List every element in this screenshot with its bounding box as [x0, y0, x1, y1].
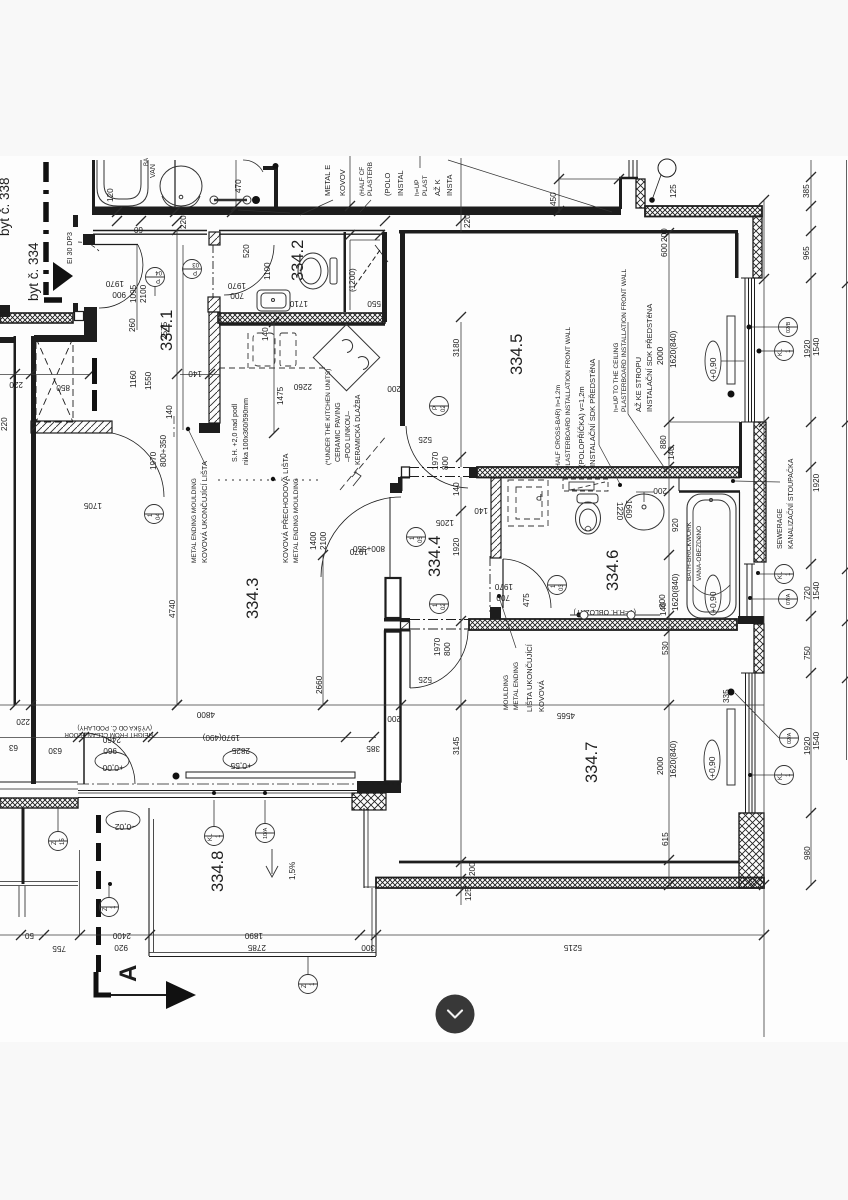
- svg-text:850: 850: [56, 383, 70, 392]
- svg-text:900: 900: [112, 290, 126, 299]
- svg-text:KOVOVÁ UKONČUJÍCÍ LIŠTA: KOVOVÁ UKONČUJÍCÍ LIŠTA: [200, 461, 209, 563]
- svg-text:INSTA: INSTA: [445, 174, 454, 196]
- svg-text:A: A: [115, 965, 142, 982]
- svg-text:1970: 1970: [349, 547, 368, 556]
- svg-text:525: 525: [418, 435, 432, 444]
- svg-text:1970: 1970: [149, 451, 158, 470]
- svg-text:140: 140: [474, 506, 488, 515]
- svg-text:PLAST: PLAST: [422, 175, 429, 196]
- svg-text:PLASTERBOARD INSTALLATION FR: PLASTERBOARD INSTALLATION FRONT WALL: [621, 268, 628, 412]
- svg-text:4740: 4740: [168, 599, 177, 618]
- svg-text:60: 60: [133, 225, 143, 234]
- svg-text:1970: 1970: [433, 637, 442, 656]
- svg-text:3145: 3145: [452, 736, 461, 755]
- svg-text:1970: 1970: [105, 279, 124, 288]
- svg-text:KOVOV: KOVOV: [338, 169, 347, 196]
- svg-text:P: P: [536, 492, 542, 502]
- svg-text:+0,90: +0,90: [707, 756, 717, 778]
- svg-text:3180: 3180: [452, 338, 461, 357]
- svg-text:–0,02: –0,02: [114, 822, 136, 832]
- svg-text:INSTALAČNÍ SDK PŘEDSTěNA: INSTALAČNÍ SDK PŘEDSTěNA: [588, 359, 597, 467]
- svg-text:755: 755: [52, 944, 66, 953]
- svg-text:CERAMIC PAVING: CERAMIC PAVING: [335, 402, 342, 462]
- svg-text:1620(840): 1620(840): [671, 573, 680, 611]
- svg-text:2000: 2000: [656, 756, 665, 775]
- svg-text:450: 450: [549, 192, 558, 206]
- svg-text:1970: 1970: [431, 451, 440, 470]
- svg-text:750: 750: [803, 646, 812, 660]
- svg-text:125: 125: [464, 887, 473, 901]
- svg-text:220: 220: [179, 215, 188, 229]
- svg-text:1920: 1920: [803, 736, 812, 755]
- svg-text:1540: 1540: [812, 337, 821, 356]
- svg-text:615: 615: [661, 832, 670, 846]
- svg-text:4800: 4800: [196, 710, 215, 719]
- svg-text:1920: 1920: [452, 537, 461, 556]
- svg-text:720: 720: [803, 586, 812, 600]
- svg-text:AŽ KE STROPU: AŽ KE STROPU: [634, 357, 643, 412]
- svg-text:(*UNDER THE KITCHEN UNITS): (*UNDER THE KITCHEN UNITS): [325, 369, 332, 465]
- svg-text:200: 200: [660, 228, 669, 242]
- svg-text:1920: 1920: [812, 473, 821, 492]
- svg-text:+0,90: +0,90: [708, 357, 718, 379]
- svg-text:470: 470: [234, 179, 243, 193]
- svg-text:PLASTERB: PLASTERB: [367, 162, 374, 196]
- svg-text:140: 140: [452, 482, 461, 496]
- svg-text:–POD LINKOU–: –POD LINKOU–: [345, 411, 352, 462]
- svg-text:KANALIZAČNÍ STOUPAČKA: KANALIZAČNÍ STOUPAČKA: [786, 458, 795, 549]
- svg-text:1970(490): 1970(490): [202, 733, 240, 742]
- svg-text:byt č. 338: byt č. 338: [0, 177, 12, 236]
- svg-text:260: 260: [128, 318, 137, 332]
- svg-text:550: 550: [367, 299, 381, 308]
- svg-text:2785: 2785: [247, 943, 266, 952]
- svg-text:byt č. 334: byt č. 334: [26, 242, 41, 301]
- svg-text:LIŠTA UKONČUJÍCÍ: LIŠTA UKONČUJÍCÍ: [525, 643, 534, 712]
- svg-text:METAL ENDING MOULDING: METAL ENDING MOULDING: [293, 478, 300, 563]
- svg-text:INSTALAČNÍ SDK PŘEDSTěNA: INSTALAČNÍ SDK PŘEDSTěNA: [645, 304, 654, 412]
- svg-text:02/B: 02/B: [786, 321, 792, 333]
- svg-text:METAL E: METAL E: [323, 165, 332, 196]
- svg-text:200: 200: [387, 384, 401, 393]
- svg-text:1890: 1890: [244, 931, 263, 940]
- svg-text:1710: 1710: [289, 299, 308, 308]
- svg-text:334.5: 334.5: [508, 334, 526, 375]
- svg-text:220: 220: [9, 380, 23, 389]
- svg-text:334.7: 334.7: [583, 742, 601, 783]
- svg-text:1540: 1540: [812, 581, 821, 600]
- svg-text:1970: 1970: [227, 281, 246, 290]
- svg-text:1660: 1660: [624, 500, 633, 519]
- svg-text:1100: 1100: [263, 262, 272, 280]
- svg-text:1705: 1705: [83, 501, 102, 510]
- svg-text:334.3: 334.3: [244, 578, 262, 619]
- svg-text:5215: 5215: [563, 943, 582, 952]
- svg-text:50: 50: [24, 931, 34, 940]
- svg-text:02/A: 02/A: [787, 732, 793, 744]
- svg-text:140: 140: [165, 405, 174, 419]
- svg-text:140: 140: [659, 602, 668, 616]
- svg-text:(POLO: (POLO: [383, 172, 392, 196]
- svg-text:140: 140: [667, 446, 676, 460]
- svg-text:h=UP: h=UP: [414, 180, 421, 196]
- svg-text:334.8: 334.8: [209, 851, 227, 892]
- svg-text:1970: 1970: [494, 582, 513, 591]
- svg-text:2575: 2575: [160, 321, 169, 340]
- svg-text:1475: 1475: [276, 386, 285, 405]
- svg-text:VAN: VAN: [150, 164, 157, 178]
- svg-text:1205: 1205: [435, 518, 454, 527]
- svg-text:KOVOVÁ PŘECHODOVÁ LIŠTA: KOVOVÁ PŘECHODOVÁ LIŠTA: [281, 454, 290, 563]
- svg-text:S.H. +2,0 nad podl: S.H. +2,0 nad podl: [232, 403, 239, 462]
- svg-text:AŽ K: AŽ K: [433, 179, 442, 196]
- svg-text:KOVOVÁ: KOVOVÁ: [537, 680, 546, 712]
- svg-text:(HALF CF: (HALF CF: [359, 167, 366, 196]
- svg-text:530: 530: [661, 641, 670, 655]
- svg-text:475: 475: [522, 593, 531, 607]
- svg-text:EI 30 DP3: EI 30 DP3: [67, 232, 74, 264]
- svg-text:334.4: 334.4: [426, 536, 444, 577]
- svg-text:METAL ENDING MOULDING: METAL ENDING MOULDING: [191, 478, 198, 563]
- svg-text:KERAMICKÁ DLAŽBA: KERAMICKÁ DLAŽBA: [353, 394, 362, 465]
- svg-text:525: 525: [418, 675, 432, 684]
- svg-text:SEWERAGE: SEWERAGE: [777, 508, 784, 549]
- svg-text:(1200): (1200): [348, 268, 357, 292]
- svg-text:2660: 2660: [315, 675, 324, 694]
- svg-text:140: 140: [261, 327, 270, 341]
- svg-text:2400: 2400: [112, 931, 131, 940]
- svg-text:385: 385: [366, 744, 380, 753]
- svg-text:METAL ENDING: METAL ENDING: [513, 662, 520, 710]
- svg-text:334.6: 334.6: [604, 550, 622, 591]
- svg-text:960: 960: [103, 746, 117, 755]
- svg-text:630: 630: [48, 746, 62, 755]
- svg-text:VANA-OBEZDěNO: VANA-OBEZDěNO: [696, 526, 703, 581]
- svg-text:+0,90: +0,90: [708, 591, 718, 613]
- svg-text:200: 200: [468, 862, 477, 876]
- svg-text:nika 100x360/590mm: nika 100x360/590mm: [243, 398, 250, 465]
- svg-text:200: 200: [653, 486, 667, 495]
- svg-text:MOULDING: MOULDING: [503, 675, 510, 710]
- svg-text:4565: 4565: [556, 711, 575, 720]
- svg-text:1620(840): 1620(840): [669, 330, 678, 368]
- svg-text:2100: 2100: [319, 531, 328, 550]
- svg-text:1540: 1540: [812, 731, 821, 750]
- svg-text:920: 920: [671, 518, 680, 532]
- svg-text:(POLOPŘÍČKA) v=1,2m: (POLOPŘÍČKA) v=1,2m: [577, 386, 586, 467]
- svg-text:1095: 1095: [129, 284, 138, 303]
- svg-text:63: 63: [8, 743, 18, 752]
- svg-text:600: 600: [660, 243, 669, 257]
- svg-text:200: 200: [387, 714, 401, 723]
- svg-text:125: 125: [669, 184, 678, 198]
- svg-text:1160: 1160: [129, 370, 138, 388]
- svg-text:800: 800: [441, 456, 450, 470]
- svg-text:980: 980: [803, 846, 812, 860]
- svg-text:2000: 2000: [656, 346, 665, 365]
- svg-text:1550: 1550: [144, 371, 153, 390]
- svg-text:(VÝŠKA OD Č. PODLAHY): (VÝŠKA OD Č. PODLAHY): [77, 724, 152, 731]
- svg-text:1620(840): 1620(840): [669, 740, 678, 778]
- svg-text:h=UP TO THE CEILING: h=UP TO THE CEILING: [613, 343, 620, 412]
- svg-text:(HALF CROSS-BAR) h=1.2m: (HALF CROSS-BAR) h=1.2m: [555, 385, 562, 470]
- svg-text:HEIGHT FROM CLEAN FLOOR: HEIGHT FROM CLEAN FLOOR: [64, 731, 153, 738]
- svg-text:1920: 1920: [803, 339, 812, 358]
- svg-text:2260: 2260: [293, 382, 312, 391]
- svg-text:1,5%: 1,5%: [288, 862, 297, 880]
- svg-text:140: 140: [188, 369, 202, 378]
- svg-text:+0,00: +0,00: [102, 763, 124, 773]
- svg-text:2100: 2100: [139, 284, 148, 303]
- svg-text:+0,55: +0,55: [230, 761, 252, 771]
- svg-text:520: 520: [242, 244, 251, 258]
- svg-text:INSTAL: INSTAL: [396, 170, 405, 196]
- svg-text:220: 220: [16, 717, 30, 726]
- svg-text:300: 300: [361, 943, 375, 952]
- svg-text:10/A: 10/A: [263, 827, 269, 839]
- svg-text:800: 800: [443, 642, 452, 656]
- svg-text:385: 385: [802, 184, 811, 198]
- svg-text:920: 920: [114, 943, 128, 952]
- svg-text:220: 220: [463, 214, 472, 228]
- svg-text:220: 220: [0, 417, 9, 431]
- svg-text:1400: 1400: [309, 531, 318, 550]
- svg-text:965: 965: [802, 246, 811, 260]
- svg-text:PLASTERBOARD INSTALLATION FRO: PLASTERBOARD INSTALLATION FRONT WALL: [565, 326, 572, 470]
- svg-text:07/A: 07/A: [786, 593, 792, 605]
- svg-text:700: 700: [230, 291, 244, 300]
- svg-text:800+350: 800+350: [159, 434, 168, 467]
- svg-text:1220: 1220: [615, 502, 624, 521]
